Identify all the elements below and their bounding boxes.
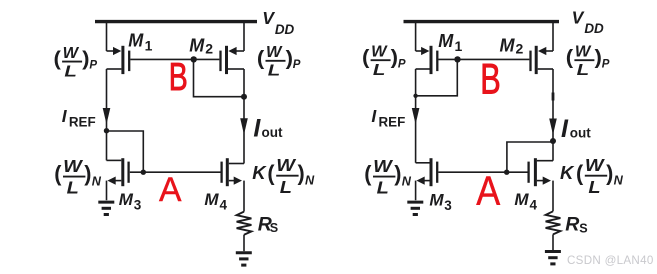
label Iout (left circuit) xyxy=(253,115,283,143)
label (W/L)P left (right circuit) xyxy=(362,43,406,79)
svg-text:B: B xyxy=(480,56,501,104)
svg-text:I: I xyxy=(561,115,569,143)
label M4 (right circuit) xyxy=(514,190,537,212)
svg-text:M: M xyxy=(204,190,219,209)
current arrow IREF (right circuit) xyxy=(412,108,420,124)
label node A (left circuit) xyxy=(159,171,182,209)
svg-text:1: 1 xyxy=(455,38,463,54)
svg-text:A: A xyxy=(159,171,182,209)
svg-text:4: 4 xyxy=(530,197,538,212)
wire M2 drain down (right) xyxy=(552,69,554,161)
ground under M3 (right circuit) xyxy=(407,202,423,214)
svg-text:A: A xyxy=(476,168,500,214)
node dot on M2 drain xyxy=(241,94,247,100)
svg-text:W: W xyxy=(63,156,84,176)
svg-text:P: P xyxy=(89,60,97,72)
svg-text:I: I xyxy=(253,115,261,143)
wire node to M3 gate (diode connection) xyxy=(107,131,144,172)
label (W/L)N left (left circuit) xyxy=(54,156,102,198)
wire M1 drain to node xyxy=(106,69,108,131)
svg-text:I: I xyxy=(62,106,68,126)
label M2 (left circuit) xyxy=(189,35,213,56)
svg-text:(: ( xyxy=(566,47,574,69)
svg-text:): ) xyxy=(298,160,305,185)
svg-text:L: L xyxy=(373,62,386,79)
pmos M1 (right circuit) xyxy=(416,46,438,74)
pmos M2 (left circuit) xyxy=(221,46,245,74)
label RS (right circuit) xyxy=(565,214,588,236)
gate wire node A (left circuit) xyxy=(130,171,221,173)
svg-text:W: W xyxy=(63,45,80,62)
svg-text:S: S xyxy=(579,221,587,235)
node dot B (left circuit) xyxy=(191,56,197,62)
nmos M3 (right circuit) xyxy=(416,158,438,200)
wire VDD to M2 source (right) xyxy=(552,20,554,51)
svg-text:): ) xyxy=(84,161,91,186)
svg-text:L: L xyxy=(67,178,79,198)
svg-text:REF: REF xyxy=(379,115,406,130)
svg-text:2: 2 xyxy=(516,40,524,56)
svg-text:REF: REF xyxy=(69,114,96,129)
VDD label (right circuit) xyxy=(572,8,604,37)
svg-text:M: M xyxy=(119,190,134,209)
svg-text:W: W xyxy=(371,43,388,60)
label (W/L)P right (right circuit) xyxy=(566,43,610,79)
label node A (right circuit) xyxy=(476,168,500,214)
svg-text:): ) xyxy=(606,160,613,185)
wire VDD to M1 source xyxy=(106,20,108,51)
stub mark on M2 drain wire (right) xyxy=(552,93,555,101)
svg-text:out: out xyxy=(262,125,283,140)
node dot A gate line (right circuit) xyxy=(504,170,509,175)
wire A to M4 drain (diode connection, right) xyxy=(507,142,553,172)
svg-text:out: out xyxy=(570,125,591,140)
current arrow Iout (right circuit) xyxy=(549,119,557,135)
svg-text:DD: DD xyxy=(584,21,604,36)
label M1 (left circuit) xyxy=(128,31,152,54)
svg-text:L: L xyxy=(280,177,292,197)
svg-text:N: N xyxy=(614,174,624,188)
pmos M2 (right circuit) xyxy=(531,46,554,74)
node dot A gate line (left circuit) xyxy=(141,170,146,175)
label node B (right circuit) xyxy=(480,56,501,104)
svg-text:3: 3 xyxy=(444,198,452,213)
svg-text:N: N xyxy=(305,174,315,188)
wire B to M1 drain (diode connection, right) xyxy=(416,59,458,95)
svg-text:P: P xyxy=(398,58,406,70)
svg-text:S: S xyxy=(270,221,278,235)
label RS (left circuit) xyxy=(258,214,278,236)
svg-text:W: W xyxy=(373,156,394,176)
svg-text:): ) xyxy=(394,161,401,186)
gate wire node A (right circuit) xyxy=(438,171,528,173)
label M2 (right circuit) xyxy=(500,35,524,56)
svg-text:B: B xyxy=(169,56,188,99)
wire B to M2 drain (diode connection) xyxy=(194,59,245,96)
svg-text:W: W xyxy=(276,155,297,175)
svg-text:L: L xyxy=(377,178,389,198)
svg-text:M: M xyxy=(429,191,444,210)
ground under RS (right circuit) xyxy=(545,252,561,264)
label M1 (right circuit) xyxy=(438,31,462,54)
node dot on IREF branch xyxy=(104,128,109,133)
current arrow IREF (left circuit) xyxy=(103,108,111,124)
VDD label (left circuit) xyxy=(262,8,294,37)
resistor RS (right circuit) xyxy=(546,211,561,250)
nmos M4 (left circuit) xyxy=(222,158,244,211)
label (W/L)N left (right circuit) xyxy=(364,156,412,198)
svg-text:W: W xyxy=(585,155,606,175)
node dot on M1 drain (right) xyxy=(413,94,417,98)
svg-text:(: ( xyxy=(257,48,265,70)
svg-text:CSDN @LAN40: CSDN @LAN40 xyxy=(567,254,654,267)
svg-text:K: K xyxy=(252,162,267,183)
svg-text:N: N xyxy=(92,175,102,189)
label M3 (right circuit) xyxy=(429,191,452,213)
wire M1 drain down (right) xyxy=(415,69,417,163)
svg-text:L: L xyxy=(268,63,281,80)
node dot on M4 drain (right) xyxy=(550,138,556,144)
svg-text:1: 1 xyxy=(145,38,153,54)
svg-text:L: L xyxy=(577,62,590,79)
label IREF (right circuit) xyxy=(371,106,405,129)
svg-text:4: 4 xyxy=(220,198,228,213)
svg-text:K: K xyxy=(560,162,575,183)
watermark CSDN @LAN40 xyxy=(567,254,654,267)
svg-text:R: R xyxy=(565,214,579,236)
svg-text:M: M xyxy=(438,31,454,51)
svg-text:L: L xyxy=(64,64,77,81)
label (W/L)P right (left circuit) xyxy=(257,44,301,80)
svg-text:W: W xyxy=(575,43,592,60)
svg-text:P: P xyxy=(293,59,301,71)
node dot B (right circuit) xyxy=(454,56,460,62)
svg-text:(: ( xyxy=(54,49,62,71)
svg-text:N: N xyxy=(402,175,412,189)
svg-text:DD: DD xyxy=(275,22,295,37)
svg-text:(: ( xyxy=(364,161,372,186)
svg-text:I: I xyxy=(371,106,377,126)
label M3 (left circuit) xyxy=(119,190,142,212)
gate wire node B (left circuit) xyxy=(130,58,219,60)
pmos M1 (left circuit) xyxy=(107,46,130,74)
label Iout (right circuit) xyxy=(561,115,591,143)
label (W/L)P left (left circuit) xyxy=(54,45,98,81)
wire M2 drain to M4 drain xyxy=(243,69,245,164)
svg-text:W: W xyxy=(266,44,283,61)
nmos M3 (left circuit) xyxy=(107,158,129,200)
ground under M3 (left circuit) xyxy=(98,202,114,214)
svg-text:L: L xyxy=(588,177,600,197)
svg-text:3: 3 xyxy=(134,198,142,213)
label K(W/L)N (left circuit) xyxy=(252,155,315,197)
svg-text:2: 2 xyxy=(205,40,213,56)
svg-text:V: V xyxy=(262,8,275,28)
label K(W/L)N (right circuit) xyxy=(560,155,624,197)
wire node to M3 drain xyxy=(106,131,108,161)
svg-text:M: M xyxy=(514,190,529,209)
svg-text:V: V xyxy=(572,8,585,28)
VDD rail (right circuit) xyxy=(404,20,560,23)
current arrow Iout (left circuit) xyxy=(240,118,248,134)
nmos M4 (right circuit) xyxy=(529,158,553,211)
svg-text:M: M xyxy=(128,31,144,51)
svg-text:(: ( xyxy=(362,47,370,69)
svg-text:(: ( xyxy=(576,160,584,185)
svg-text:M: M xyxy=(500,35,516,55)
gate wire node B (right circuit) xyxy=(438,58,529,60)
VDD rail (left circuit) xyxy=(95,20,257,23)
ground under RS (left circuit) xyxy=(236,253,252,265)
label node B (left circuit) xyxy=(169,56,188,99)
label IREF (left circuit) xyxy=(62,106,96,129)
svg-text:M: M xyxy=(189,35,205,55)
svg-text:(: ( xyxy=(54,161,62,186)
wire VDD to M1 source (right) xyxy=(415,20,417,51)
wire VDD to M2 source xyxy=(243,20,245,51)
resistor RS (left circuit) xyxy=(237,212,252,252)
svg-text:P: P xyxy=(602,58,610,70)
svg-text:(: ( xyxy=(267,160,275,185)
label M4 (left circuit) xyxy=(204,190,227,212)
